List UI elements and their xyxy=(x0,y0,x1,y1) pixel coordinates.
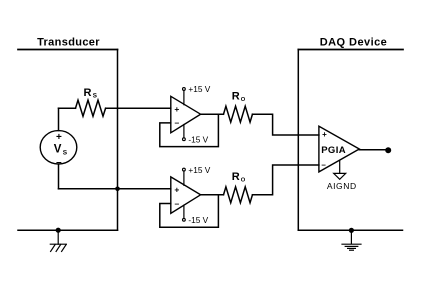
junction node Vs- / boundary xyxy=(115,187,120,192)
resistor Ro top xyxy=(224,106,253,122)
svg-text:R: R xyxy=(232,90,240,102)
Vs value label xyxy=(54,143,68,156)
op-amp U2 xyxy=(171,177,201,214)
chassis ground symbol xyxy=(50,230,66,251)
AIGND symbol xyxy=(334,173,346,179)
Ro top value label xyxy=(232,90,246,103)
svg-text:+15 V: +15 V xyxy=(188,84,210,94)
op-amp U1 xyxy=(171,96,201,133)
svg-text:V: V xyxy=(54,143,62,155)
PGIA output wire xyxy=(359,149,388,151)
resistor Ro bottom xyxy=(224,187,253,203)
U1 output wire xyxy=(201,113,224,115)
svg-text:O: O xyxy=(241,178,246,184)
svg-text:PGIA: PGIA xyxy=(321,145,346,156)
Ro bottom value label xyxy=(232,171,246,184)
wire Vs- down xyxy=(58,164,60,189)
svg-text:–: – xyxy=(321,161,326,170)
ground wire transducer bottom xyxy=(18,229,118,231)
svg-text:R: R xyxy=(232,171,240,183)
DAQ boundary top line xyxy=(298,49,403,51)
U1 feedback wire xyxy=(160,114,219,146)
U1 -15V supply pin xyxy=(183,125,185,138)
svg-text:–: – xyxy=(56,157,62,168)
U2 +15V supply pin xyxy=(183,171,185,185)
svg-text:S: S xyxy=(63,150,68,157)
PGIA amplifier xyxy=(319,126,359,172)
svg-text:-15 V: -15 V xyxy=(188,135,208,145)
wire Ro top to PGIA + input xyxy=(253,114,319,135)
Transducer boundary right line xyxy=(117,50,119,231)
ground wire DAQ bottom xyxy=(298,229,402,231)
wire Vs+ corner to Rs xyxy=(59,107,76,109)
svg-text:+: + xyxy=(174,185,179,195)
Transducer boundary top line xyxy=(18,49,118,51)
svg-text:DAQ Device: DAQ Device xyxy=(320,37,387,49)
U2 feedback wire xyxy=(160,195,219,227)
svg-text:S: S xyxy=(93,93,97,100)
DAQ boundary left line xyxy=(297,50,299,231)
svg-text:+15 V: +15 V xyxy=(188,165,210,175)
U1 +15V supply pin xyxy=(183,90,185,104)
svg-text:R: R xyxy=(84,87,92,99)
svg-text:–: – xyxy=(175,118,180,128)
U2 output wire xyxy=(201,194,224,196)
svg-text:-15 V: -15 V xyxy=(188,215,208,225)
svg-text:+: + xyxy=(174,104,179,114)
svg-text:Transducer: Transducer xyxy=(37,37,100,49)
wire Vs+ up to Rs row xyxy=(58,108,60,130)
junction dot transducer ground xyxy=(56,228,61,233)
U2 -15V supply pin xyxy=(183,205,185,218)
wire Rs to U1 + input xyxy=(106,107,171,109)
junction dot DAQ ground xyxy=(349,228,354,233)
svg-text:O: O xyxy=(241,97,246,103)
svg-text:AIGND: AIGND xyxy=(327,181,357,191)
wire Ro bottom to PGIA - input xyxy=(253,165,319,195)
svg-text:+: + xyxy=(322,130,327,139)
output node dot xyxy=(385,147,391,153)
earth ground symbol xyxy=(342,230,361,250)
svg-text:+: + xyxy=(56,132,62,143)
voltage source Vs xyxy=(40,131,77,164)
resistor Rs xyxy=(76,100,106,116)
wire Vs- to U2 + input xyxy=(59,188,171,190)
Rs value label xyxy=(84,87,98,100)
AIGND pin wire xyxy=(339,160,341,173)
svg-text:–: – xyxy=(175,198,180,208)
